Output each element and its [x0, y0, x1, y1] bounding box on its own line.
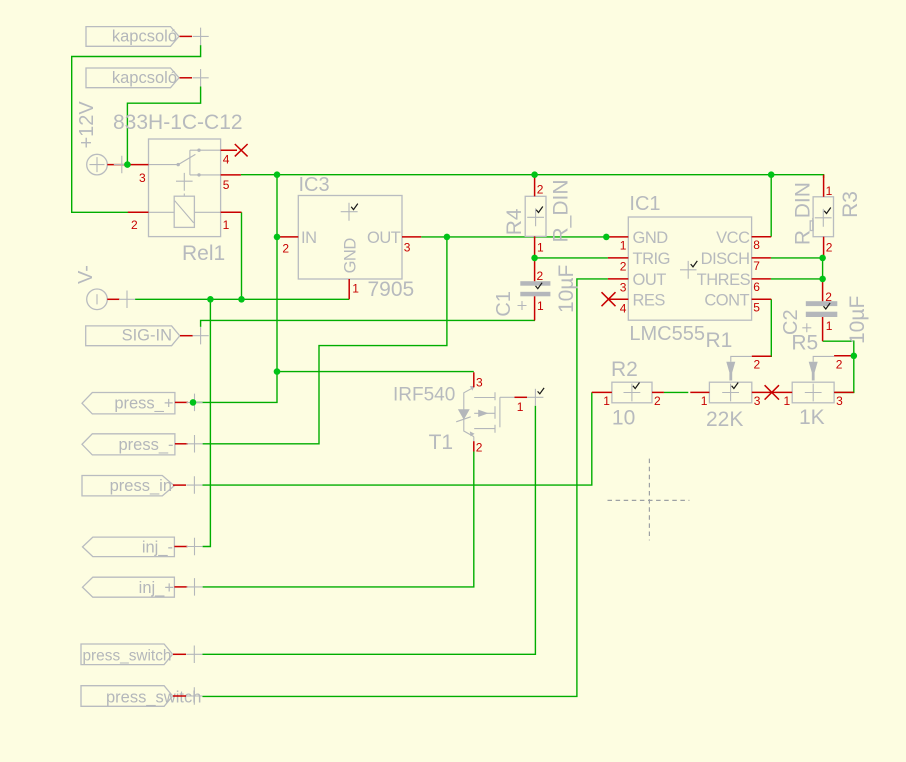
svg-text:press_switch: press_switch — [83, 648, 172, 665]
IC1 pin 4 RES — [609, 298, 629, 300]
supply V- symbol — [75, 265, 135, 310]
pin cross kapcsolo#1 — [193, 28, 209, 45]
no-connect X on IC1 pin 4 RES — [602, 292, 616, 306]
R2 pin 2 — [652, 391, 664, 393]
pin stub of flag SIG-IN — [180, 335, 193, 337]
T1 channel segments — [494, 392, 496, 432]
svg-text:GND: GND — [633, 229, 669, 247]
svg-text:Rel1: Rel1 — [182, 242, 225, 265]
svg-text:+12V: +12V — [76, 101, 98, 149]
svg-text:22K: 22K — [706, 408, 743, 431]
svg-text:2: 2 — [620, 260, 627, 274]
svg-text:1K: 1K — [799, 406, 825, 429]
T1 bulk arrow — [478, 410, 488, 417]
svg-text:6: 6 — [753, 280, 760, 294]
R1 wiper lead — [731, 356, 752, 361]
T1 drain/source/bulk connections — [474, 398, 495, 429]
net flag press_switch (upper) — [81, 644, 202, 665]
relay pin 4 — [221, 149, 237, 151]
wire relay pin 1 drop to V- rail — [241, 212, 243, 299]
relay contact pivot — [177, 163, 180, 166]
svg-text:7: 7 — [753, 259, 760, 273]
net flag SIG-IN — [86, 326, 209, 346]
pin cross inj_+ — [187, 578, 203, 596]
svg-text:press_switch: press_switch — [106, 688, 201, 706]
wire net KAPCSOLO2: flag kapcsolo#2 to relay pin 3 / +12V node — [127, 87, 200, 165]
svg-text:1: 1 — [537, 240, 544, 254]
C1 pin 2 (top) — [534, 258, 536, 281]
pin stub of flag press_in — [173, 484, 186, 486]
relay origin cross — [176, 173, 193, 191]
svg-text:2: 2 — [836, 357, 843, 371]
svg-text:press_in: press_in — [110, 477, 172, 495]
wire press_in to R2 pin 1 — [203, 392, 592, 485]
svg-text:2: 2 — [282, 242, 289, 256]
junction DISCH / R3 pin 2 — [819, 255, 826, 262]
svg-text:OUT: OUT — [367, 229, 401, 247]
IC1 pin 7 DISCH — [752, 257, 771, 259]
R5 wiper arrow — [809, 362, 818, 381]
svg-text:C2: C2 — [780, 309, 802, 335]
wire net OUT: IC1 pin 3 down to press_switch#2 — [202, 279, 608, 697]
svg-text:press_-: press_- — [118, 436, 173, 454]
wire CONT drop: IC1 pin 5 to R1 wiper — [765, 299, 771, 356]
wire T1 source down to inj_+ — [203, 452, 474, 587]
IC3 checkmark — [351, 204, 358, 210]
R3 package tab — [810, 221, 813, 231]
junction IC3 IN pin — [274, 234, 281, 241]
T1 body diode cathode slash — [456, 417, 471, 422]
wire net SIG-IN: flag SIG-IN to C1 pin 1 — [201, 320, 535, 327]
pin stub of flag kapcsolo#2 — [180, 77, 193, 79]
wire THRES row: IC1 pin 6 to R3/C2 node — [771, 278, 823, 280]
C1 checkmark — [536, 283, 543, 289]
pin stub of flag press_- — [175, 443, 188, 445]
svg-text:R_DIN: R_DIN — [792, 182, 815, 245]
R3 checkmark — [824, 208, 831, 214]
T1 body-diode branch line — [464, 387, 474, 436]
svg-text:2: 2 — [654, 394, 661, 408]
svg-text:kapcsoló: kapcsoló — [112, 28, 177, 46]
trimmer R2 value 10 (horizontal) — [592, 358, 664, 430]
svg-text:DISCH: DISCH — [701, 250, 750, 268]
junction V- / inj_- drop — [207, 296, 214, 303]
svg-text:2: 2 — [754, 357, 761, 371]
svg-text:1: 1 — [603, 394, 610, 408]
T1 pin 2 source — [473, 437, 475, 442]
wire DISCH row: IC1 pin 7 to R3 pin 2 node — [771, 257, 823, 259]
relay contact bracket — [189, 150, 191, 175]
wire net B: IC3 OUT to IC1 GND and down to press_- — [421, 236, 606, 238]
junction rail / VCC drop — [768, 171, 775, 178]
pin stub of +12V supply — [107, 164, 127, 166]
net flag press_+ — [82, 393, 203, 414]
T1 pin 1 end cross — [534, 389, 536, 406]
svg-text:4: 4 — [223, 153, 230, 167]
R4 pin 1 (bottom) — [534, 236, 536, 258]
R1 origin cross — [722, 384, 739, 402]
R3 origin cross — [815, 209, 832, 227]
svg-text:2: 2 — [537, 269, 544, 283]
no-connect X on relay pin 4 — [235, 144, 248, 156]
junction R5 wiper / C2 node — [851, 353, 858, 360]
svg-text:T1: T1 — [429, 431, 454, 454]
R5 pin 3 — [834, 391, 854, 393]
junction rail / IC3-IN drop — [274, 171, 281, 178]
wire net KAPCSOLO1: flag kapcsolo#1 to relay pin 2 — [72, 45, 201, 212]
C2 bottom plate — [806, 312, 838, 317]
net flag inj_+ — [83, 577, 203, 597]
pin cross press_switch#1 — [186, 646, 202, 664]
relay pin 1 — [221, 211, 242, 213]
svg-text:RES: RES — [633, 291, 666, 309]
svg-text:1: 1 — [352, 281, 359, 295]
C2 pin 1 (bottom) — [822, 317, 824, 341]
R4 origin cross — [527, 208, 544, 226]
capacitor C1 10uF (polarized, vertical) — [493, 258, 578, 321]
pin cross kapcsolo#2 — [193, 69, 209, 87]
pin stub of flag press_switch#1 — [173, 653, 186, 655]
transistor T1 IRF540 — [393, 372, 544, 454]
IC3 origin cross — [341, 203, 358, 221]
C2 plus sign — [802, 323, 811, 332]
IC1 origin cross — [680, 261, 697, 279]
relay coil diagonal — [175, 201, 194, 223]
relay common contact line (pin 3) — [149, 164, 179, 166]
svg-text:8: 8 — [753, 238, 760, 252]
svg-text:LMC555: LMC555 — [629, 323, 705, 345]
svg-text:1: 1 — [223, 218, 230, 232]
C1 plus sign — [518, 301, 527, 310]
pin cross inj_- — [187, 538, 203, 556]
svg-text:IRF540: IRF540 — [393, 384, 455, 405]
relay moving contact arm — [178, 154, 195, 164]
R3 pin 2 (bottom) — [823, 237, 825, 258]
svg-text:3: 3 — [139, 171, 146, 185]
C2 checkmark — [824, 303, 831, 309]
R2 origin cross — [624, 384, 641, 402]
wire net +12V rail: relay pin 5 across top to R3 pin 1 — [241, 175, 824, 178]
C1 top plate — [520, 281, 550, 286]
svg-text:inj_-: inj_- — [142, 539, 173, 557]
svg-text:3: 3 — [836, 394, 843, 408]
R5 wiper lead — [813, 356, 834, 361]
svg-text:1: 1 — [784, 394, 791, 408]
svg-text:3: 3 — [754, 394, 761, 408]
IC3 pin 2 IN — [277, 236, 298, 238]
R5 pin 1 — [772, 391, 792, 393]
relay NO contact terminal (pin 4) — [197, 149, 200, 152]
svg-text:1: 1 — [517, 400, 524, 414]
IC1 pin 5 CONT — [752, 298, 772, 300]
capacitor C2 10uF (polarized, vertical) — [780, 279, 869, 344]
svg-text:1: 1 — [701, 394, 708, 408]
svg-text:TRIG: TRIG — [633, 250, 670, 268]
resistor R4 (R_DIN, vertical) — [503, 175, 573, 258]
T1 pin 1 checkmark — [538, 388, 545, 394]
pin stub of flag press_+ — [175, 401, 188, 403]
supply +12V symbol — [76, 101, 130, 175]
relay pin 2 — [128, 211, 149, 213]
R5 pin 2 (wiper) — [834, 355, 854, 357]
junction IC3 OUT node — [444, 234, 451, 241]
svg-text:10µF: 10µF — [555, 265, 578, 313]
pin cross press_+ — [187, 394, 203, 412]
pin cross +12V — [114, 156, 130, 174]
svg-text:3: 3 — [620, 281, 627, 295]
pin stub of flag press_switch#2 — [173, 695, 186, 697]
relay body — [149, 139, 221, 237]
R2 checkmark — [633, 383, 640, 389]
voltage regulator IC3 7905 — [277, 174, 421, 301]
svg-text:10: 10 — [612, 407, 635, 430]
junction press_+ pin — [190, 399, 197, 406]
svg-text:press_+: press_+ — [114, 395, 173, 413]
wire +12V drop: rail to IC3 IN, to T1 drain tee, to press_+ — [193, 175, 277, 403]
svg-text:VCC: VCC — [716, 229, 750, 247]
svg-text:R2: R2 — [611, 358, 638, 381]
R2 pin 1 — [592, 391, 612, 393]
junction THRES / C2 pin 2 — [819, 276, 826, 283]
IC3 pin 1 GND — [348, 279, 350, 299]
wire T1 drain to +12V drop tee — [277, 371, 474, 373]
trimmer R1 value 22K (horizontal, with wiper arrow) — [690, 329, 772, 431]
pin stub of flag inj_- — [174, 546, 187, 548]
net flag KAPCSOLO (top) — [86, 27, 209, 47]
svg-text:THRES: THRES — [697, 271, 751, 289]
R4 pin 2 (top) — [534, 175, 536, 197]
svg-text:V-: V- — [75, 265, 97, 284]
T1 branch arrowheads — [470, 386, 475, 391]
svg-text:2: 2 — [131, 218, 138, 232]
junction TRIG / R4 / C1 node — [531, 255, 538, 262]
no-connect X between R1 pin 3 and R5 pin 1 — [765, 385, 779, 399]
wire net V-: supply V- to IC3 GND — [135, 298, 349, 300]
R1 wiper arrow — [726, 362, 735, 381]
C1 bottom plate — [520, 292, 550, 297]
R1 pin 3 — [752, 391, 772, 393]
R3 pin 1 (top) — [823, 175, 825, 197]
wire VCC drop: rail to IC1 pin 8 — [770, 175, 772, 237]
svg-text:3: 3 — [404, 241, 411, 255]
relay coil side lines — [149, 211, 221, 213]
IC3 pin 3 OUT — [402, 236, 421, 238]
svg-text:1: 1 — [826, 184, 833, 198]
net flag inj_- — [83, 537, 203, 557]
wire TRIG row: C1/R4 node to IC1 pin 2 — [535, 257, 608, 259]
svg-text:1: 1 — [537, 299, 544, 313]
pin cross press_switch#2 — [186, 687, 202, 705]
timer IC1 LMC555 — [602, 193, 772, 345]
net flag press_- — [82, 434, 203, 455]
net flag press_switch (lower) — [81, 686, 202, 707]
R1 pin 2 (wiper) — [752, 355, 772, 357]
svg-text:833H-1C-C12: 833H-1C-C12 — [113, 111, 243, 134]
T1 pin 1 lead (gate tab) — [500, 396, 544, 398]
wire T1 tab pin down to press_switch#1 — [202, 406, 535, 655]
C2 top plate — [806, 301, 838, 306]
svg-text:1: 1 — [620, 239, 627, 253]
T1 gate bar — [499, 397, 501, 427]
junction IC1 GND pin — [603, 234, 610, 241]
IC1 pin 1 GND — [606, 236, 628, 238]
IC1 pin 6 THRES — [752, 278, 771, 280]
svg-text:kapcsoló: kapcsoló — [112, 69, 177, 87]
R5 origin cross — [805, 384, 822, 402]
pin cross V- — [119, 291, 135, 309]
relay mechanical link tick — [183, 194, 185, 197]
wire C2 pin 1 to R5 wiper node and R5 pin 3 — [823, 341, 854, 392]
relay Rel1 833H-1C-C12 — [113, 111, 248, 265]
svg-text:CONT: CONT — [704, 291, 749, 309]
pin stub of flag kapcsolo#1 — [180, 35, 193, 37]
pin cross SIG-IN — [193, 327, 209, 345]
trimmer R5 value 1K (horizontal, with wiper arrow) — [772, 331, 854, 429]
svg-text:C1: C1 — [493, 291, 515, 317]
relay NC contact terminal (pin 5) — [197, 173, 200, 176]
svg-text:R4: R4 — [503, 208, 526, 235]
svg-text:inj_+: inj_+ — [139, 579, 174, 597]
wire V- drop to inj_- — [203, 299, 211, 546]
svg-text:2: 2 — [476, 440, 483, 454]
sheet origin dashed cross — [608, 459, 690, 541]
IC1 pin 8 VCC — [752, 236, 772, 238]
R1 pin 1 — [690, 391, 709, 393]
svg-text:5: 5 — [753, 300, 760, 314]
svg-text:7905: 7905 — [368, 278, 415, 301]
svg-text:IN: IN — [301, 229, 317, 247]
svg-text:IC1: IC1 — [629, 193, 660, 215]
svg-text:5: 5 — [223, 178, 230, 192]
C1 pin 1 (bottom) — [534, 296, 536, 320]
svg-text:R1: R1 — [706, 329, 733, 352]
svg-text:2: 2 — [826, 240, 833, 254]
svg-text:2: 2 — [537, 183, 544, 197]
relay coil — [174, 196, 194, 227]
junction V- / relay pin 1 drop — [238, 296, 245, 303]
junction +12V / relay pin 3 — [124, 161, 131, 168]
resistor R3 (R_DIN, vertical) — [792, 175, 862, 258]
R4 checkmark — [536, 207, 543, 213]
pin stub of V- supply — [107, 298, 119, 300]
T1 pin 3 drain — [473, 372, 475, 387]
svg-text:SIG-IN: SIG-IN — [122, 327, 172, 345]
wire R3/C2 link — [822, 258, 824, 279]
relay pin 5 — [221, 174, 241, 176]
svg-text:2: 2 — [825, 290, 832, 304]
T1 body diode triangle — [458, 409, 470, 420]
svg-text:GND: GND — [342, 238, 360, 274]
IC1 pin 2 TRIG — [608, 257, 628, 259]
net flag KAPCSOLO (second) — [86, 68, 209, 88]
svg-text:1: 1 — [826, 319, 833, 333]
svg-text:R_DIN: R_DIN — [549, 179, 572, 242]
IC1 pin 3 OUT — [608, 278, 628, 280]
svg-text:IC3: IC3 — [299, 174, 330, 196]
junction rail / R4 pin 2 — [531, 171, 538, 178]
IC1 checkmark — [691, 261, 698, 267]
svg-text:3: 3 — [476, 375, 483, 389]
C2 pin 2 (top) — [822, 279, 824, 301]
junction drain tee — [274, 368, 281, 375]
wire R2 to R1 link — [664, 391, 688, 393]
svg-text:OUT: OUT — [633, 271, 667, 289]
pin stub of flag inj_+ — [174, 586, 187, 588]
pin cross press_in — [186, 476, 202, 494]
svg-text:R3: R3 — [839, 191, 862, 218]
R1 checkmark — [732, 383, 739, 389]
pin cross press_- — [187, 435, 203, 453]
svg-text:4: 4 — [620, 301, 627, 315]
net flag press_in — [82, 476, 203, 496]
relay pin 3 — [128, 164, 149, 166]
svg-text:10µF: 10µF — [846, 296, 869, 344]
